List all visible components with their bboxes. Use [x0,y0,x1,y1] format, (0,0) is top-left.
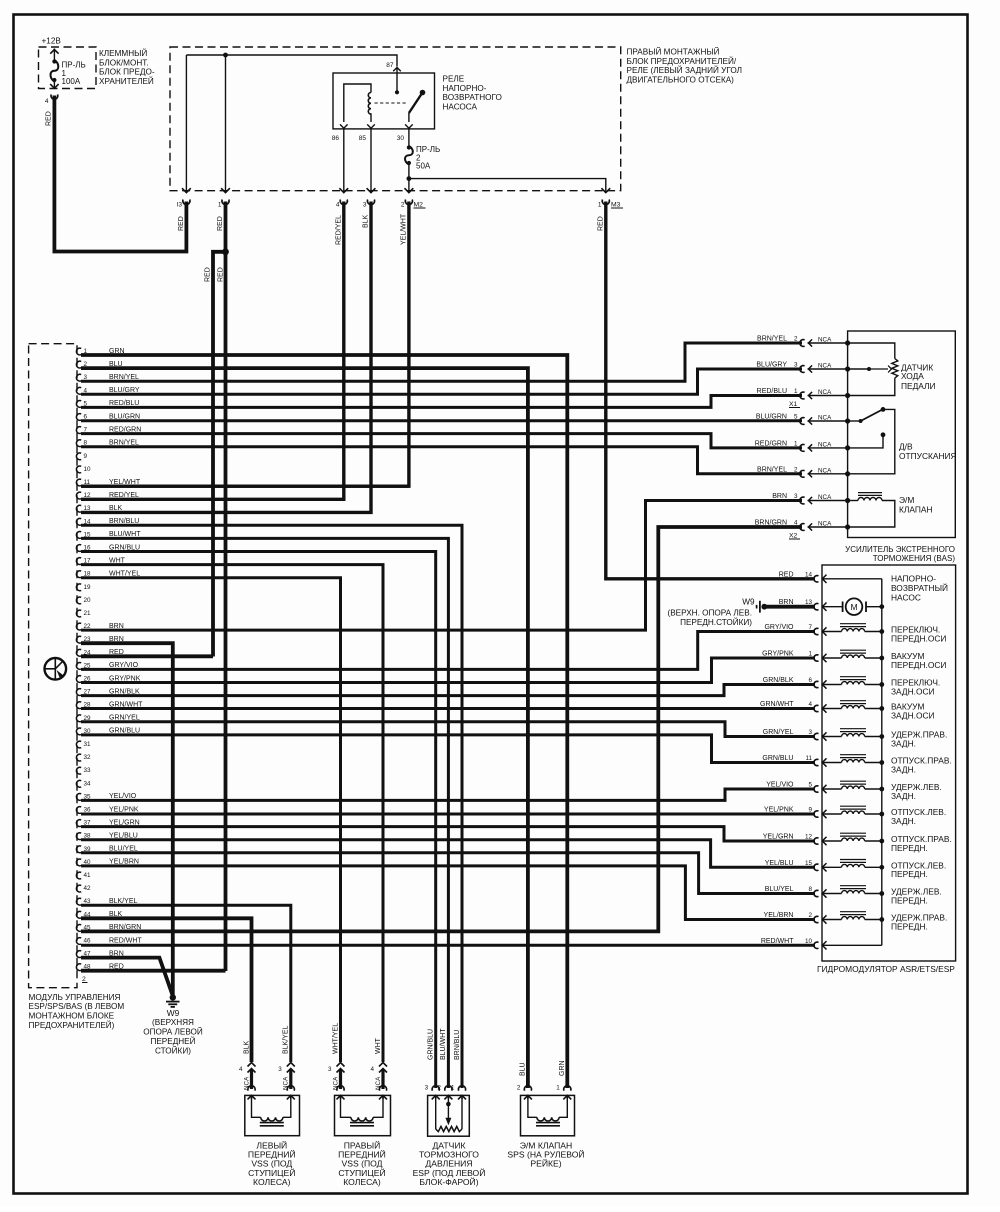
svg-text:ЗАДН.ОСИ: ЗАДН.ОСИ [891,686,935,696]
svg-text:RED: RED [598,216,605,231]
svg-text:ХОДА: ХОДА [901,371,924,381]
svg-text:M2: M2 [414,202,424,209]
svg-text:RED/WHT: RED/WHT [761,938,794,945]
svg-text:NCA: NCA [818,415,832,422]
svg-text:RED: RED [205,267,212,282]
relay РЕЛЕ НАПОРНО-ВОЗВРАТНОГО НАСОСА [333,73,435,129]
svg-text:W9: W9 [167,1008,180,1018]
svg-text:ПРЕДОХРАНИТЕЛЕЙ): ПРЕДОХРАНИТЕЛЕЙ) [29,1019,115,1030]
fuse box bottom connectors I3 1 M2 M3 [182,188,191,192]
svg-text:BRN/YEL: BRN/YEL [757,336,787,343]
svg-text:2: 2 [437,1085,441,1092]
wire YEL/GRN pin37 to hydromodulator [81,827,815,841]
wire GRN/YEL pin29 to hydromodulator [81,722,815,737]
svg-text:1: 1 [794,440,798,447]
svg-text:87: 87 [386,62,394,69]
svg-text:9: 9 [84,453,88,460]
svg-text:13: 13 [84,505,92,512]
svg-text:10: 10 [805,938,813,945]
wire BRN pin47 to ground W9 [81,958,173,995]
svg-text:BLU: BLU [520,1062,527,1076]
left front VSS sensor [245,1095,300,1135]
svg-text:GRN: GRN [559,1060,566,1076]
svg-text:YEL/VIO: YEL/VIO [766,782,794,789]
svg-text:ПЕРЕДН.СТОЙКИ): ПЕРЕДН.СТОЙКИ) [680,616,752,627]
svg-text:ПРАВЫЙ МОНТАЖНЫЙ: ПРАВЫЙ МОНТАЖНЫЙ [627,46,720,57]
module pin wire color labels [109,348,143,971]
wire GRN/BLU pin30 to hydromodulator [81,735,815,763]
wire BLK from M2-3 to module pin 13 [81,202,371,513]
svg-text:42: 42 [84,885,92,892]
svg-text:8: 8 [808,886,812,893]
BAS pedal travel sensor (potentiometer) [848,343,895,359]
wire GRN/BLK pin27 to hydromodulator [81,685,815,696]
svg-text:I3: I3 [177,202,183,209]
svg-text:14: 14 [805,571,813,578]
svg-text:ПЕРЕДН.: ПЕРЕДН. [891,843,928,853]
svg-text:33: 33 [84,767,92,774]
relay pin 87 arrow [393,68,401,72]
svg-text:ОПОРА ЛЕВОЙ: ОПОРА ЛЕВОЙ [143,1026,203,1037]
svg-text:1: 1 [451,1085,455,1092]
svg-text:1: 1 [598,202,602,209]
svg-text:NCA: NCA [818,494,832,501]
svg-text:НАСОС: НАСОС [891,593,921,603]
wire BRN/YEL pin3 to BAS [81,343,802,381]
svg-text:ПЕРЕДН.ОСИ: ПЕРЕДН.ОСИ [891,633,946,643]
svg-text:YEL/PNK: YEL/PNK [109,806,139,813]
svg-text:БЛОК-ФАРОЙ): БЛОК-ФАРОЙ) [419,1176,478,1187]
svg-text:RED: RED [218,267,225,282]
svg-text:ХРАНИТЕЛЕЙ: ХРАНИТЕЛЕЙ [99,75,154,86]
wire RED pin24 to junction [81,654,213,658]
wire BRN/GRN pin45 to BAS [81,527,802,931]
control module МОДУЛЬ УПРАВЛЕНИЯ ESP/SPS/BAS (dashed box) [29,344,77,988]
BAS release switch Д/В ОТПУСКАНИЯ [848,420,861,422]
svg-text:ПЕРЕДН.ОСИ: ПЕРЕДН.ОСИ [891,660,946,670]
wire YEL/WHT pin11 row [81,485,409,488]
svg-text:M: M [850,602,857,612]
svg-text:РЕЛЕ: РЕЛЕ [443,75,465,84]
wire BLK pin44 to left VSS [81,918,252,1062]
svg-text:ПЕРЕДН.: ПЕРЕДН. [891,921,928,931]
wire YEL/PNK pin36 to hydromodulator [81,813,815,816]
svg-text:RED/GRN: RED/GRN [755,440,787,447]
svg-text:2: 2 [808,912,812,919]
svg-text:МОНТАЖНОМ БЛОКЕ: МОНТАЖНОМ БЛОКЕ [29,1011,115,1020]
svg-text:БЛОК ПРЕДО-: БЛОК ПРЕДО- [99,68,155,77]
svg-text:NCA: NCA [818,467,832,474]
svg-text:NCA: NCA [332,1076,339,1090]
svg-text:X2: X2 [789,533,798,540]
wire YEL/BLU pin38 to hydromodulator [81,840,815,868]
svg-text:1: 1 [808,651,812,658]
svg-text:RED/YEL: RED/YEL [336,215,343,245]
svg-text:4: 4 [336,202,340,209]
wire GRN/BLU pin16 to pressure sensor [81,552,436,1089]
svg-text:BLK: BLK [243,1040,250,1054]
svg-text:W9: W9 [742,598,755,607]
svg-text:NCA: NCA [818,337,832,344]
svg-text:30: 30 [397,135,405,142]
svg-text:YEL/BLU: YEL/BLU [765,860,794,867]
svg-text:ПЕРЕДН.: ПЕРЕДН. [891,869,928,879]
relay switch blade (30-87) [409,93,423,114]
svg-text:YEL/PNK: YEL/PNK [764,807,794,814]
svg-text:RED: RED [217,216,224,231]
wire RED from connector 1 with junction [224,202,228,972]
relay internal dashed link [375,102,408,104]
wire BRN/YEL pin8 to BAS [81,447,802,474]
svg-text:36: 36 [84,807,92,814]
svg-text:BRN/BLU: BRN/BLU [454,1030,461,1060]
svg-text:6: 6 [808,677,812,684]
svg-text:НАПОРНО-: НАПОРНО- [891,574,936,584]
svg-text:85: 85 [359,135,367,142]
svg-text:ESP/SPS/BAS (В ЛЕВОМ: ESP/SPS/BAS (В ЛЕВОМ [29,1002,125,1011]
svg-text:RED: RED [46,111,53,126]
svg-text:ДВИГАТЕЛЬНОГО ОТСЕКА): ДВИГАТЕЛЬНОГО ОТСЕКА) [627,75,735,84]
svg-text:ЗАДН.ОСИ: ЗАДН.ОСИ [891,710,935,720]
svg-text:Э/М: Э/М [899,495,914,505]
svg-text:КОЛЕСА): КОЛЕСА) [343,1177,381,1187]
svg-text:3: 3 [278,1066,282,1073]
wire BRN/BLU pin14 to pressure sensor [81,525,462,1088]
svg-text:2: 2 [794,336,798,343]
wire GRY/PNK pin26 to hydromodulator [81,658,815,683]
svg-text:BLU/YEL: BLU/YEL [765,886,794,893]
svg-text:BLU/GRY: BLU/GRY [756,362,787,369]
svg-text:11: 11 [805,755,812,762]
svg-text:(ВЕРХН. ОПОРА ЛЕВ.: (ВЕРХН. ОПОРА ЛЕВ. [667,609,752,618]
pressure sensor internals (variable resistor) [435,1098,437,1129]
wire GRN pin1 to SPS valve [81,355,567,1088]
wire GRN/WHT pin28 to hydromodulator [81,707,815,710]
hydromodulator internal bus [881,579,883,946]
BAS unit УСИЛИТЕЛЬ ЭКСТРЕННОГО ТОРМОЖЕНИЯ box [848,331,956,538]
wire BLK/YEL pin43 to left VSS [81,905,291,1062]
svg-text:2: 2 [82,976,86,983]
svg-text:WHT: WHT [375,1037,382,1054]
svg-text:3: 3 [794,493,798,500]
fuse ПР-ЛЬ 1 100A [53,49,55,61]
BAS solenoid valve Э/М КЛАПАН [848,500,858,502]
ground W9 (module, top of left front strut) [170,994,176,1000]
wire BRN pin23 to ground W9 [81,643,173,996]
wire YEL/WHT from M2-2 to module pin 11 [81,202,409,487]
svg-text:ПЕРЕДН.: ПЕРЕДН. [891,895,928,905]
right front VSS sensor [335,1095,391,1135]
svg-text:СТОЙКИ): СТОЙКИ) [155,1044,191,1055]
svg-text:86: 86 [332,135,340,142]
svg-text:ПЕРЕДНЕЙ: ПЕРЕДНЕЙ [150,1035,195,1046]
svg-text:БЛОК ПРЕДОХРАНИТЕЛЕЙ/: БЛОК ПРЕДОХРАНИТЕЛЕЙ/ [627,55,737,66]
module pin sockets and numbers 1-48 [76,348,91,971]
svg-text:YEL/GRN: YEL/GRN [763,834,794,841]
svg-text:2: 2 [517,1085,521,1092]
svg-text:4: 4 [808,701,812,708]
svg-text:Д/В: Д/В [899,442,913,452]
wire WHT/YEL pin18 to right VSS [81,578,341,1062]
svg-text:3: 3 [425,1085,429,1092]
SPS solenoid valve (steering rack) [521,1095,575,1135]
hydromodulator ГИДРОМОДУЛЯТОР ASR/ETS/ESP box [822,565,956,961]
right fuse/relay box (dashed) [170,47,621,191]
svg-text:10: 10 [84,466,92,473]
svg-text:NCA: NCA [243,1076,250,1090]
connector pin 4 below fuse [51,94,58,99]
svg-text:BLU/WHT: BLU/WHT [440,1028,447,1060]
svg-text:BLU/GRN: BLU/GRN [756,414,787,421]
wire YEL/BRN pin40 to hydromodulator [81,866,815,920]
relay coil [344,84,371,122]
svg-text:GRN/BLK: GRN/BLK [763,677,794,684]
svg-text:МОДУЛЬ УПРАВЛЕНИЯ: МОДУЛЬ УПРАВЛЕНИЯ [29,993,121,1002]
svg-text:34: 34 [84,780,92,787]
svg-text:4: 4 [45,98,49,105]
svg-text:GRY/PNK: GRY/PNK [762,651,794,658]
svg-text:ТОРМОЖЕНИЯ (BAS): ТОРМОЖЕНИЯ (BAS) [873,554,956,563]
svg-text:9: 9 [808,807,812,814]
svg-text:100А: 100А [62,77,81,86]
svg-text:RED: RED [779,571,794,578]
svg-text:15: 15 [805,860,813,867]
svg-text:5: 5 [794,414,798,421]
wire: bus inside fuse box from I3 to pin 1 and relay 87 [186,55,397,67]
BAS connector rows [755,336,850,531]
wire BLU pin2 to SPS valve [81,368,528,1088]
hydromodulator connector rows [760,571,826,949]
svg-text:УСИЛИТЕЛЬ ЭКСТРЕННОГО: УСИЛИТЕЛЬ ЭКСТРЕННОГО [845,545,955,554]
svg-text:ЗАДН.: ЗАДН. [891,764,916,774]
svg-text:RED/BLU: RED/BLU [757,388,787,395]
svg-text:RED/WHT: RED/WHT [109,937,142,944]
svg-text:3: 3 [328,1066,332,1073]
svg-text:ВОЗВРАТНОГО: ВОЗВРАТНОГО [443,93,502,102]
svg-text:НАСОСА: НАСОСА [443,102,478,111]
fuse ПР-ЛЬ 2 50A [408,129,410,146]
wire RED/GRN pin7 to BAS [81,434,802,448]
wire BLU/YEL pin39 to hydromodulator [81,853,815,894]
svg-text:7: 7 [808,624,812,631]
svg-text:ВОЗВРАТНЫЙ: ВОЗВРАТНЫЙ [891,582,948,593]
svg-text:BLU/GRN: BLU/GRN [109,413,140,420]
wires 86/85 down to connector [343,129,345,193]
svg-text:YEL/BRN: YEL/BRN [764,912,794,919]
svg-text:RED/YEL: RED/YEL [109,492,139,499]
svg-text:12: 12 [805,834,813,841]
wire RED pin48 to junction [81,969,226,973]
svg-text:1: 1 [794,388,798,395]
ESP brake pressure sensor [428,1095,470,1136]
svg-text:ГИДРОМОДУЛЯТОР ASR/ETS/ESP: ГИДРОМОДУЛЯТОР ASR/ETS/ESP [817,964,955,974]
svg-text:ЗАДН.: ЗАДН. [891,791,916,801]
wire RED/WHT pin46 to hydromodulator [81,944,815,947]
svg-text:NCA: NCA [283,1076,290,1090]
svg-text:БЛОК/МОНТ.: БЛОК/МОНТ. [99,58,149,67]
svg-text:NCA: NCA [818,441,832,448]
wire BRN pin22 to BAS [81,501,802,631]
svg-text:31: 31 [84,741,92,748]
svg-text:GRN/BLU: GRN/BLU [428,1029,435,1060]
svg-text:NCA: NCA [818,389,832,396]
hydromodulator solenoid coils [822,624,952,932]
wire RED from M3 to pump (hydromodulator pin 14) [606,202,815,579]
svg-text:GRN/BLU: GRN/BLU [762,755,793,762]
svg-text:46: 46 [84,938,92,945]
svg-text:ЗАДН.: ЗАДН. [891,738,916,748]
svg-text:GRY/VIO: GRY/VIO [764,624,794,631]
svg-text:GRN/WHT: GRN/WHT [760,701,794,708]
svg-text:GRN/YEL: GRN/YEL [763,729,794,736]
pump motor M НАПОРНО-ВОЗВРАТНЫЙ НАСОС [822,578,882,580]
svg-text:BRN: BRN [772,493,787,500]
svg-text:BLK: BLK [363,214,370,228]
svg-text:YEL/WHT: YEL/WHT [401,213,408,245]
svg-text:12: 12 [84,492,92,499]
svg-text:НАПОРНО-: НАПОРНО- [443,84,487,93]
svg-text:КЛЕММНЫЙ: КЛЕММНЫЙ [99,47,147,58]
svg-text:+12В: +12В [42,37,62,46]
svg-text:4: 4 [370,1066,374,1073]
wire BLU/GRY pin4 to BAS [81,369,802,394]
svg-text:20: 20 [84,597,92,604]
wire YEL/VIO pin35 to hydromodulator [81,789,815,800]
wire BLU/WHT pin15 to pressure sensor [81,538,448,1088]
svg-text:50А: 50А [416,162,431,171]
svg-text:РЕЙКЕ): РЕЙКЕ) [530,1158,561,1169]
svg-text:(ВЕРХНЯЯ: (ВЕРХНЯЯ [152,1018,194,1027]
svg-text:ОТПУСКАНИЯ: ОТПУСКАНИЯ [899,451,957,461]
svg-text:21: 21 [84,610,92,617]
terminal block / fuse box (dashed, left) [39,47,97,89]
splice symbol (circle with arrow) [45,658,67,680]
svg-text:РЕЛЕ (ЛЕВЫЙ ЗАДНИЙ УГОЛ: РЕЛЕ (ЛЕВЫЙ ЗАДНИЙ УГОЛ [627,64,742,75]
svg-text:КОЛЕСА): КОЛЕСА) [253,1177,291,1187]
svg-text:2: 2 [401,202,405,209]
wire RED/BLU pin5 to BAS [81,396,802,408]
svg-text:1: 1 [218,202,222,209]
svg-text:NCA: NCA [375,1076,382,1090]
hydromodulator RED/WHT common return [822,944,882,946]
svg-text:BRN/GRN: BRN/GRN [755,520,787,527]
svg-text:BLK/YEL: BLK/YEL [283,1025,290,1054]
junction to M3 [407,176,412,181]
svg-text:1: 1 [556,1085,560,1092]
svg-text:19: 19 [84,584,92,591]
svg-text:4: 4 [794,520,798,527]
svg-text:3: 3 [794,362,798,369]
svg-text:NCA: NCA [818,521,832,528]
svg-text:NCA: NCA [818,363,832,370]
svg-text:3: 3 [363,202,367,209]
svg-text:2: 2 [794,466,798,473]
wire GRY/VIO pin25 to hydromodulator [81,632,815,670]
svg-text:BLK: BLK [109,505,123,512]
wire BLU/GRN pin6 to BAS [81,419,802,422]
wire RED/YEL from M2-4 to module pin 12 [81,202,344,500]
svg-text:WHT/YEL: WHT/YEL [332,1023,339,1054]
junction node on bus [223,53,228,58]
svg-text:5: 5 [808,782,812,789]
svg-text:M3: M3 [611,202,621,209]
svg-text:X1: X1 [789,401,798,408]
svg-text:3: 3 [808,729,812,736]
wire WHT pin17 to right VSS [81,565,383,1062]
svg-text:BRN/YEL: BRN/YEL [757,466,787,473]
svg-text:ПЕДАЛИ: ПЕДАЛИ [901,381,936,391]
svg-text:32: 32 [84,754,92,761]
svg-text:ЗАДН.: ЗАДН. [891,816,916,826]
svg-text:4: 4 [239,1066,243,1073]
svg-text:КЛАПАН: КЛАПАН [899,505,933,515]
svg-text:41: 41 [84,872,92,879]
relay pin arrows 86 85 30 [340,124,348,128]
svg-text:RED: RED [178,216,185,231]
